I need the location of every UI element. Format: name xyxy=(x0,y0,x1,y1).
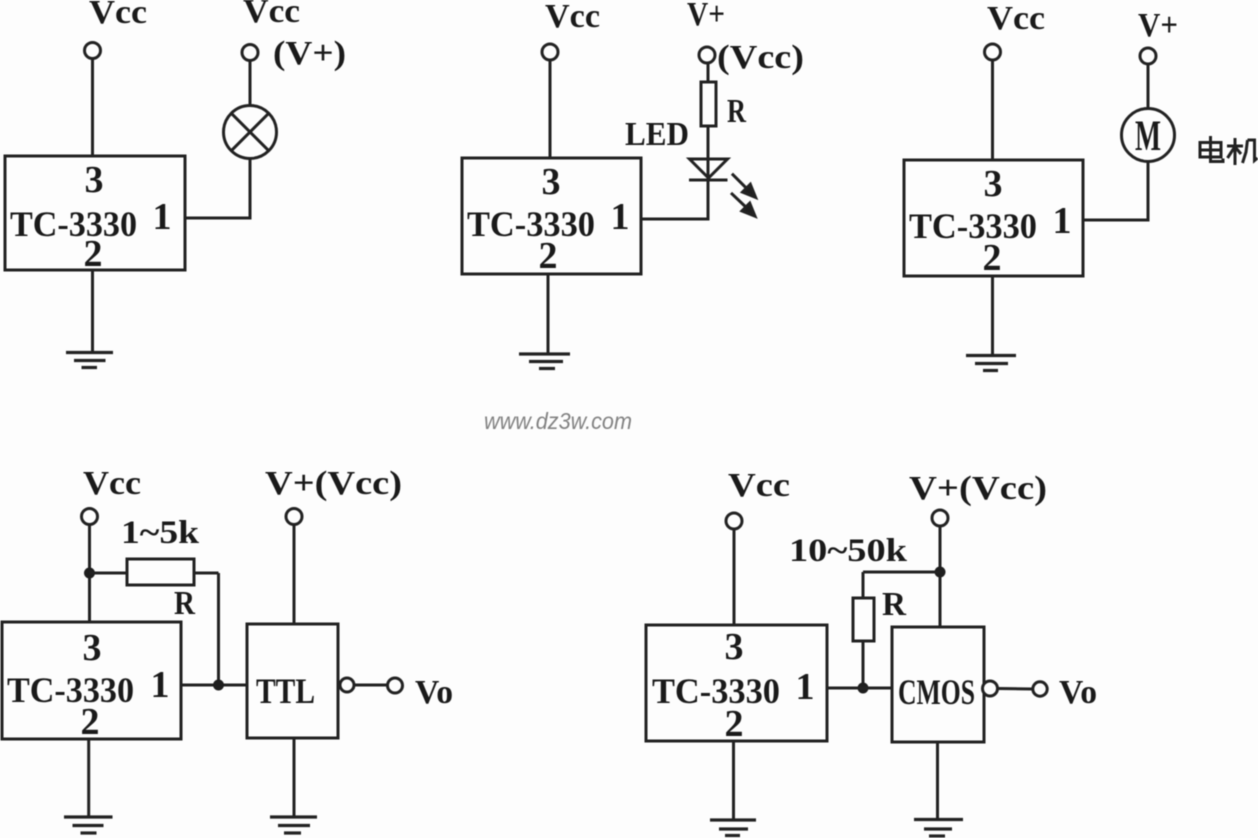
svg-text:TC-3330: TC-3330 xyxy=(467,204,595,244)
svg-text:TTL: TTL xyxy=(256,671,315,711)
svg-text:TC-3330: TC-3330 xyxy=(7,670,134,710)
svg-text:V+(Vcc): V+(Vcc) xyxy=(265,465,402,502)
svg-text:2: 2 xyxy=(725,703,744,745)
svg-text:Vo: Vo xyxy=(415,674,453,711)
svg-text:2: 2 xyxy=(539,235,558,277)
svg-text:TC-3330: TC-3330 xyxy=(652,671,780,711)
svg-text:10~50k: 10~50k xyxy=(789,533,908,569)
svg-text:1: 1 xyxy=(611,196,630,238)
svg-text:TC-3330: TC-3330 xyxy=(909,206,1037,246)
svg-text:3: 3 xyxy=(984,163,1003,205)
svg-text:3: 3 xyxy=(85,159,104,201)
svg-text:Vcc: Vcc xyxy=(243,0,300,30)
svg-text:1: 1 xyxy=(151,664,170,706)
svg-text:Vcc: Vcc xyxy=(545,0,600,35)
svg-text:Vcc: Vcc xyxy=(83,465,141,502)
svg-text:R: R xyxy=(882,586,906,623)
svg-text:3: 3 xyxy=(542,161,561,203)
svg-text:www.dz3w.com: www.dz3w.com xyxy=(484,408,632,434)
svg-text:1: 1 xyxy=(796,666,815,708)
svg-text:CMOS: CMOS xyxy=(898,672,975,712)
svg-text:Vo: Vo xyxy=(1059,674,1097,711)
svg-text:TC-3330: TC-3330 xyxy=(10,204,137,244)
svg-text:1~5k: 1~5k xyxy=(121,515,200,551)
svg-text:2: 2 xyxy=(84,233,103,275)
svg-text:1: 1 xyxy=(1053,200,1072,242)
svg-text:M: M xyxy=(1135,113,1161,160)
svg-text:V+: V+ xyxy=(687,0,725,33)
svg-text:Vcc: Vcc xyxy=(89,0,147,31)
svg-text:R: R xyxy=(174,585,195,622)
svg-text:V+: V+ xyxy=(1138,7,1178,44)
svg-text:R: R xyxy=(727,93,746,130)
svg-text:(V+): (V+) xyxy=(273,35,346,72)
svg-text:LED: LED xyxy=(625,116,689,153)
svg-text:1: 1 xyxy=(153,196,172,238)
svg-text:Vcc: Vcc xyxy=(728,467,790,504)
svg-text:3: 3 xyxy=(83,627,102,669)
svg-text:2: 2 xyxy=(983,237,1002,279)
svg-text:(Vcc): (Vcc) xyxy=(717,39,804,76)
svg-text:V+(Vcc): V+(Vcc) xyxy=(909,470,1047,507)
svg-text:Vcc: Vcc xyxy=(987,0,1045,37)
svg-text:2: 2 xyxy=(81,701,100,743)
svg-text:3: 3 xyxy=(725,626,744,668)
